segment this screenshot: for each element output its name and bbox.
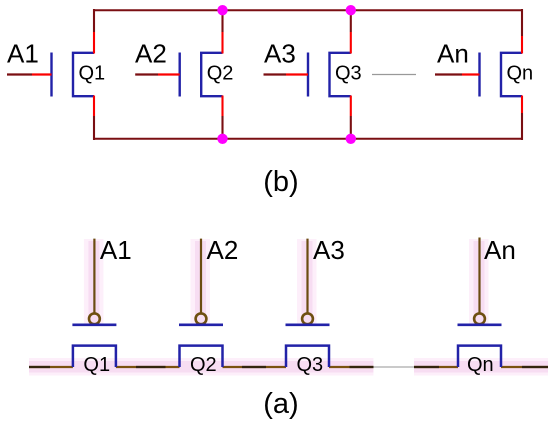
wire Q3 source	[350, 96, 352, 140]
switch Q2 gate line	[200, 239, 202, 313]
transistor Q2	[180, 53, 223, 97]
svg-text:(b): (b)	[263, 166, 298, 198]
switch Q3 gate glow	[297, 239, 317, 326]
svg-text:Q3: Q3	[335, 63, 362, 85]
transistor Q1	[52, 53, 95, 97]
switch Q1 gate line	[93, 239, 95, 313]
switch Q2 plate	[179, 323, 223, 326]
ellipsis continuation (b)	[372, 74, 416, 76]
svg-text:A3: A3	[313, 235, 345, 265]
switch Qn gate glow	[469, 239, 489, 326]
wire channel dark overlay a	[29, 366, 50, 368]
wire channel dark overlay b	[136, 366, 166, 368]
wire channel segment 1	[29, 366, 73, 368]
wire channel segment 3	[223, 366, 287, 368]
wire channel dark overlay d	[350, 366, 374, 368]
switch Q1 gate glow	[84, 239, 104, 326]
svg-text:A2: A2	[135, 39, 167, 69]
wire Q3 drain	[350, 10, 352, 54]
svg-text:A1: A1	[7, 39, 39, 69]
ellipsis continuation (a)	[374, 366, 415, 368]
switch Q3 plate	[286, 323, 330, 326]
switch Q2 channel bump	[180, 346, 223, 367]
junction dot top rail at Q3	[346, 5, 356, 15]
switch Q2 gate glow	[191, 239, 211, 326]
wire Qn source	[521, 96, 523, 141]
transistor Qn	[480, 53, 523, 97]
switch Q3 gate line	[306, 239, 308, 313]
svg-text:(a): (a)	[263, 388, 298, 420]
wire A1 gate input	[7, 73, 52, 75]
switch Q1 plate	[72, 323, 116, 326]
wire Q2 source	[221, 96, 223, 140]
glow channel left	[29, 358, 373, 376]
svg-text:Q1: Q1	[79, 63, 106, 85]
wire Q2 drain	[221, 10, 223, 54]
svg-text:An: An	[484, 235, 516, 265]
wire Q1 source	[93, 96, 95, 141]
wire An gate input	[435, 73, 480, 75]
wire channel dark overlay e	[414, 366, 439, 368]
wire Q1 drain	[93, 9, 95, 54]
wire channel segment 4	[329, 366, 373, 368]
junction dot top rail at Q2	[217, 5, 227, 15]
svg-text:Q2: Q2	[190, 354, 217, 376]
wire A3 gate input	[264, 73, 309, 75]
wire bottom rail	[94, 138, 522, 140]
junction dot bottom rail at Q2	[217, 134, 227, 144]
svg-text:Q2: Q2	[207, 63, 234, 85]
switch Q1 channel bump	[73, 346, 116, 367]
switch Qn contact circle	[474, 313, 485, 324]
svg-text:Q1: Q1	[83, 354, 110, 376]
switch Qn gate line	[478, 238, 480, 314]
svg-text:A1: A1	[100, 235, 132, 265]
glow channel right	[414, 358, 548, 376]
wire channel dark overlay c	[242, 366, 266, 368]
wire A2 gate input	[135, 73, 180, 75]
svg-text:An: An	[437, 39, 469, 69]
switch Qn channel bump	[458, 346, 501, 367]
switch Q3 contact circle	[302, 313, 313, 324]
wire top rail	[94, 9, 522, 11]
wire Qn drain	[521, 9, 523, 54]
junction dot bottom rail at Q3	[346, 134, 356, 144]
wire channel segment 6	[501, 366, 548, 368]
wire channel segment 5	[414, 366, 458, 368]
switch Q1 contact circle	[89, 313, 100, 324]
svg-text:Qn: Qn	[467, 354, 494, 376]
transistor Q3	[308, 53, 351, 97]
switch Qn plate	[458, 323, 502, 326]
switch Q3 channel bump	[286, 346, 329, 367]
svg-text:A3: A3	[264, 39, 296, 69]
wire channel segment 2	[116, 366, 180, 368]
svg-text:A2: A2	[207, 235, 239, 265]
svg-text:Q3: Q3	[297, 354, 324, 376]
svg-text:Qn: Qn	[507, 63, 534, 85]
switch Q2 contact circle	[196, 313, 207, 324]
wire channel dark overlay f	[522, 366, 548, 368]
